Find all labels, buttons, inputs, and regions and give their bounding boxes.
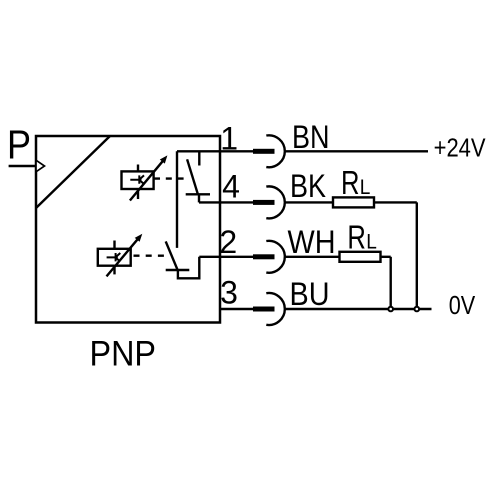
svg-text:1: 1 [220, 120, 238, 156]
pressure input arrowhead [36, 160, 45, 172]
pin 2 connector socket arc [266, 241, 285, 273]
PS2 adjustment arrowhead [135, 234, 143, 242]
PS1 internal arrow [130, 175, 144, 183]
pin 4 connector pin bar [253, 200, 275, 205]
wire: switch S2 output route [178, 257, 199, 279]
svg-text:R: R [347, 219, 366, 256]
switch S1 blade [187, 159, 198, 194]
wire: switch S1 output stub [198, 194, 200, 202]
wire: pin 4 lead [199, 201, 253, 203]
pin 4 connector socket arc [266, 186, 285, 218]
svg-text:BK: BK [290, 168, 326, 204]
svg-text:0V: 0V [449, 290, 476, 320]
pin 1 connector pin bar [253, 149, 275, 154]
wire: pin 2 to load resistor [285, 256, 340, 258]
switch S2 actuation dashed link [134, 254, 169, 256]
switch S2 blade [166, 241, 178, 270]
PS2 internal arrow [107, 253, 121, 261]
svg-text:3: 3 [220, 275, 238, 311]
svg-text:+24V: +24V [434, 132, 487, 162]
pressure setter PS1 body [122, 171, 154, 189]
PS2 adjustment arrow shaft [107, 239, 139, 277]
pressure setter PS2 body [98, 249, 131, 266]
PS2 bottom stub [113, 266, 115, 275]
load resistor RL1 body [333, 197, 374, 207]
wire: pin 3 lead [220, 308, 253, 310]
switch S1 top terminal [198, 151, 200, 165]
PS1 adjustment arrowhead [160, 155, 168, 163]
junction node at RL1 rail [415, 307, 420, 312]
sensor body diagonal [36, 136, 110, 208]
svg-text:PNP: PNP [90, 335, 157, 374]
wire: pin 2 lead [199, 256, 253, 258]
svg-text:WH: WH [288, 224, 336, 260]
wire: pin 4 to load resistor [285, 201, 334, 203]
svg-text:P: P [7, 122, 31, 168]
svg-text:L: L [366, 231, 377, 254]
svg-text:BU: BU [290, 276, 330, 312]
pin 1 connector socket arc [266, 135, 285, 167]
sensor body box [36, 136, 220, 323]
switch S2 bottom contact bar [166, 269, 190, 271]
wire: +24V line [285, 150, 429, 152]
svg-text:2: 2 [219, 224, 237, 260]
switch S1 actuation dashed link [154, 177, 184, 179]
PS1 adjustment arrow shaft [130, 161, 163, 201]
load resistor RL2 body [340, 252, 381, 262]
wire: pin 1 lead [177, 150, 253, 152]
svg-text:BN: BN [292, 119, 330, 155]
wire: 0V line [285, 308, 432, 310]
wire: RL1 to down rail [374, 201, 417, 203]
junction node at RL2 rail [388, 307, 393, 312]
wire: RL1 down rail [416, 202, 418, 309]
pin 2 connector pin bar [253, 254, 275, 259]
pin 3 connector pin bar [253, 307, 275, 312]
PS1 top stub [137, 165, 139, 172]
wire: RL2 to down rail [381, 256, 391, 258]
PS2 top stub [113, 241, 115, 249]
svg-text:R: R [341, 164, 360, 201]
switch S1 bottom contact bar [186, 193, 210, 195]
svg-text:L: L [360, 176, 371, 199]
pin 3 connector socket arc [266, 293, 285, 325]
pressure input arrow line [9, 165, 36, 167]
svg-text:4: 4 [222, 169, 240, 205]
PS1 bottom stub [137, 189, 139, 199]
wire: RL2 down rail [390, 257, 392, 309]
wire: supply rail from pin 1 [176, 151, 178, 248]
